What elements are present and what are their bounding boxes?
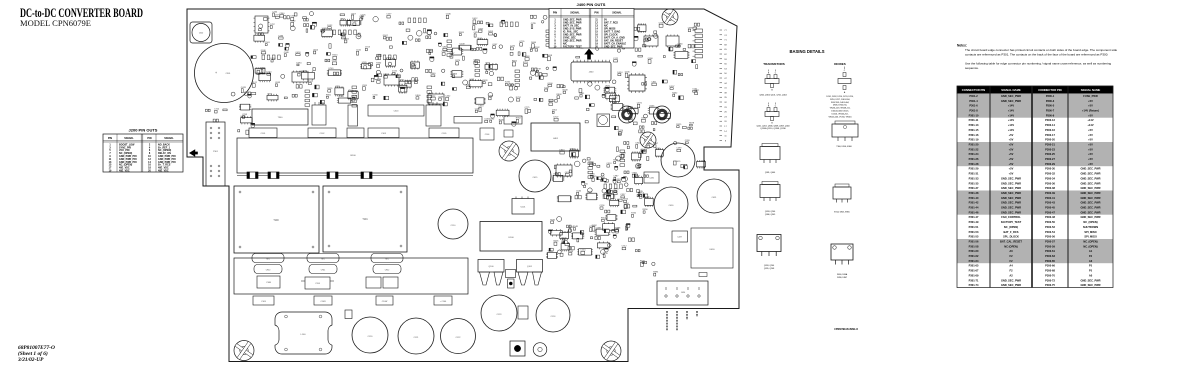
svg-text:GND_SEC_PWR: GND_SEC_PWR [1080,215,1100,219]
transistor Q101 power pack [517,260,543,286]
SMD component cluster right of J400 [613,122,705,169]
svg-text:FACTORY_TEST: FACTORY_TEST [1001,220,1022,224]
svg-text:P300-30: P300-30 [1045,167,1055,171]
svg-text:R732: R732 [631,213,637,215]
svg-text:R910: R910 [623,199,629,201]
regulator VR301 [426,102,441,126]
svg-text:D853: D853 [559,150,565,152]
svg-text:GND_SEC_PWR: GND_SEC_PWR [1001,283,1021,287]
svg-text:SIGNAL NAME: SIGNAL NAME [1001,88,1021,92]
svg-text:+5V: +5V [1088,152,1093,156]
svg-text:C959: C959 [685,140,691,142]
svg-text:D352: D352 [552,110,558,112]
svg-text:+5V: +5V [1009,172,1014,176]
svg-text:D412: D412 [473,18,479,20]
transistor Q100 power pack [478,260,504,286]
svg-text:P300-3: P300-3 [1046,99,1055,103]
svg-text:U583: U583 [485,63,491,65]
svg-text:P301-58: P301-58 [969,244,979,248]
SMD component cluster upper right [566,22,700,58]
svg-text:P301-64: P301-64 [969,259,979,263]
svg-text:P301-67: P301-67 [969,269,979,273]
svg-text:Q357: Q357 [694,90,700,92]
label for diode TO-247 [837,273,848,279]
svg-text:U387: U387 [596,227,602,229]
mounting hole bottom left [234,341,254,361]
svg-text:+5V: +5V [1009,162,1014,166]
resistor network R330 [454,117,482,124]
svg-text:P301-60: P301-60 [969,249,979,253]
svg-text:P301-16: P301-16 [969,133,979,137]
svg-text:C436: C436 [649,178,654,180]
svg-text:SHUTDOWN: SHUTDOWN [1083,225,1098,229]
svg-text:GND_SEC_PWR: GND_SEC_PWR [1080,196,1100,200]
svg-text:GND_SEC_PWR: GND_SEC_PWR [1001,181,1021,185]
svg-text:NC (OPEN): NC (OPEN) [1004,244,1018,248]
svg-text:DC-to-DC CONVERTER BOARD: DC-to-DC CONVERTER BOARD [20,6,143,20]
svg-text:P301-4: P301-4 [969,99,978,103]
svg-text:R440: R440 [562,237,568,239]
svg-text:CPN6079E-BASING-O: CPN6079E-BASING-O [834,328,858,331]
svg-text:C931: C931 [618,132,624,134]
transformer T101 [323,186,407,252]
svg-text:C428: C428 [241,87,247,89]
capacitor C122 bottom circle [441,319,476,354]
svg-text:P301-26: P301-26 [969,157,979,161]
SMD component cluster above J430 [558,224,641,259]
svg-text:Q374: Q374 [341,35,347,37]
svg-text:D201, D202, D210, D211, D214,: D201, D202, D210, D211, D214, [826,96,854,98]
box C340 [504,116,522,124]
svg-text:GND_SEC_PWR: GND_SEC_PWR [1001,201,1021,205]
transistor DPAK package basing 3 [760,144,780,164]
svg-text:C207: C207 [386,14,392,16]
svg-text:C172: C172 [613,58,619,60]
svg-text:GND_SEC_PWR: GND_SEC_PWR [1080,186,1100,190]
svg-text:P301-8: P301-8 [969,109,978,113]
svg-text:D940: D940 [431,73,437,75]
svg-text:P301-44: P301-44 [969,206,979,210]
IC U302 [384,74,399,87]
svg-text:P301-29: P301-29 [969,167,979,171]
svg-text:U594: U594 [267,94,273,96]
footer drawing number 68P81007E77-O (Sheet 1 of 6) 3/21/02-UP [17,345,55,363]
svg-text:GND_SEC_PWR: GND_SEC_PWR [1001,176,1021,180]
svg-text:P300-70: P300-70 [1045,273,1055,277]
svg-text:U430: U430 [710,249,716,251]
svg-text:U462: U462 [469,79,475,81]
svg-text:MODEL CPN6079E: MODEL CPN6079E [20,19,91,28]
SMD component cluster mid-right column [595,165,654,235]
svg-text:U760: U760 [338,96,344,98]
svg-text:D800, D80A: D800, D80A [837,273,848,276]
svg-text:C633: C633 [614,228,620,230]
svg-text:P300-1: P300-1 [1046,94,1055,98]
svg-text:B100: B100 [350,155,356,157]
svg-text:Q203, Q204: Q203, Q204 [764,265,774,267]
board outline [187,9,739,362]
IC U400 quad [627,73,647,93]
svg-text:D941: D941 [579,93,585,95]
svg-text:C712: C712 [214,109,220,111]
capacitor C110 large circle [438,209,468,239]
svg-text:+14V: +14V [1008,118,1014,122]
svg-text:C738: C738 [257,69,263,71]
svg-text:T300: T300 [278,117,284,119]
svg-text:D727: D727 [554,117,560,119]
svg-text:+5V: +5V [1088,138,1093,142]
svg-text:J200 PIN OUTS: J200 PIN OUTS [129,128,158,133]
svg-text:Use the following table for ed: Use the following table for edge connect… [965,62,1111,66]
svg-text:P300-66: P300-66 [1045,264,1055,268]
svg-text:C789: C789 [531,23,537,25]
svg-text:PIN: PIN [594,12,598,15]
svg-text:+ C104: + C104 [440,301,447,303]
svg-text:P300-45: P300-45 [1045,206,1055,210]
svg-text:P300-21: P300-21 [1045,143,1055,147]
module U430 box [691,228,733,268]
svg-text:A0: A0 [1089,273,1093,277]
axial capacitors row on trace [237,172,473,179]
svg-text:U804: U804 [340,19,346,21]
transformer T100 [234,186,319,253]
svg-text:Q453: Q453 [295,52,301,54]
svg-text:+5V: +5V [1009,138,1014,142]
aligned passive runs [262,18,625,189]
svg-text:C787: C787 [270,24,276,26]
hybrid U401 box [531,123,580,151]
svg-text:R595: R595 [554,240,560,242]
svg-text:P301-10: P301-10 [969,113,979,117]
mounting hole mid right [640,132,656,148]
svg-text:+5V: +5V [1088,147,1093,151]
svg-text:Q771: Q771 [589,226,595,228]
svg-text:Q300, Q303, Q401, Q701, Q404: Q300, Q303, Q401, Q701, Q404 [759,95,786,97]
svg-text:Q167: Q167 [492,44,498,46]
svg-text:+14V (Return): +14V (Return) [1082,109,1099,113]
IC U303 [428,93,444,106]
svg-text:GND_SEC_PWR: GND_SEC_PWR [1001,210,1021,214]
capacitor C300 square with circle top-left [190,22,212,43]
IC U300 [254,16,270,33]
svg-text:P301-35: P301-35 [969,181,979,185]
svg-text:NC_(OPEN): NC_(OPEN) [1083,244,1097,248]
svg-text:P301-20: P301-20 [969,143,979,147]
capacitor C121 bottom circle [398,318,434,354]
SMD component cluster mid right [611,103,671,135]
hybrid module U100 [480,222,542,252]
svg-text:R856: R856 [643,209,649,211]
svg-text:R628: R628 [483,80,489,82]
svg-text:R520: R520 [332,55,338,57]
svg-text:C313: C313 [606,163,612,165]
svg-text:Q396: Q396 [688,27,694,29]
svg-text:C156: C156 [600,205,606,207]
svg-text:U709: U709 [328,68,334,70]
svg-text:BAT_F_RCS: BAT_F_RCS [1003,230,1018,234]
diode TO-247 package [831,244,853,265]
svg-text:R678: R678 [689,123,695,125]
svg-text:U596: U596 [655,148,661,150]
transistor TO-247 package basing 5 [757,235,781,257]
svg-text:+5V: +5V [1088,128,1093,132]
svg-text:+14V: +14V [1008,109,1014,113]
capacitor C123 circle [481,295,517,331]
svg-text:PIN: PIN [147,137,151,140]
signal labels below J430 [667,311,697,331]
svg-text:BAT_CAL_RESET: BAT_CAL_RESET [1000,240,1022,244]
svg-text:C546: C546 [576,191,582,193]
svg-text:P300-47: P300-47 [1045,210,1055,214]
narrow box Q330 [348,105,358,126]
svg-text:P300-16: P300-16 [1045,128,1055,132]
svg-text:R491: R491 [466,84,472,86]
svg-text:J400: J400 [589,72,595,74]
arrow pointing up at J400 connector [584,49,594,60]
svg-text:C599: C599 [676,148,682,150]
diode TO-220 package [832,121,858,141]
svg-text:Q106: Q106 [547,83,553,85]
svg-text:U500: U500 [348,90,354,92]
svg-text:A4: A4 [1009,264,1013,268]
small box near mid [345,310,352,319]
svg-text:R629: R629 [327,88,333,90]
svg-text:Q795: Q795 [519,41,525,43]
svg-text:+14V: +14V [1008,104,1014,108]
svg-text:+5V: +5V [1088,104,1093,108]
svg-text:VR201-203, VR208-211,: VR201-203, VR208-211, [830,108,851,110]
SMD component cluster above J430 [640,261,659,276]
svg-text:P300-17: P300-17 [1045,133,1055,137]
svg-text:C283: C283 [278,35,284,37]
svg-text:SIGNAL NAME: SIGNAL NAME [1081,88,1101,92]
transistor Q110 with dot [510,341,525,356]
svg-text:D844: D844 [531,42,537,44]
svg-text:NC_(OPEN): NC_(OPEN) [1083,220,1097,224]
svg-text:R394: R394 [344,38,350,40]
svg-text:R798: R798 [603,253,609,255]
svg-text:C734: C734 [272,11,278,13]
inductor L100 dog-bone [275,312,332,354]
label for basing 4 [765,211,775,216]
svg-text:Q632: Q632 [565,172,571,174]
svg-text:Q844: Q844 [442,47,448,49]
svg-text:P300-7: P300-7 [1046,109,1055,113]
svg-text:NC_(OPEN): NC_(OPEN) [1004,225,1018,229]
svg-text:+5V: +5V [1088,157,1093,161]
svg-text:P301-13: P301-13 [969,123,979,127]
svg-text:+5V: +5V [1009,147,1014,151]
svg-text:R274: R274 [455,60,461,62]
module U101 box [512,197,534,215]
svg-text:P301-6: P301-6 [969,104,978,108]
svg-text:U382: U382 [548,251,554,253]
svg-text:U401: U401 [553,138,559,140]
capacitor C12y small circle [533,343,547,357]
label for basing 2 [756,126,789,131]
svg-text:P300-52: P300-52 [1045,225,1055,229]
capacitor C431 circle [697,179,731,213]
svg-text:P300-72: P300-72 [1045,278,1055,282]
svg-text:GND_SEC_PWR: GND_SEC_PWR [1001,99,1021,103]
svg-text:R803: R803 [459,32,465,34]
heatsink band with rectifiers [234,254,468,295]
svg-text:GND_SEC_PWR: GND_SEC_PWR [1080,191,1100,195]
svg-text:(Sheet 1 of 6): (Sheet 1 of 6) [18,350,48,357]
svg-text:P300-39: P300-39 [1045,191,1055,195]
mounting hole top right [662,9,678,25]
svg-text:3/21/02-UP: 3/21/02-UP [17,357,44,363]
svg-text:C314: C314 [315,283,320,285]
svg-text:GND_SEC_PWR: GND_SEC_PWR [1001,191,1021,195]
svg-text:L100: L100 [301,334,307,336]
arrow pointing left at J200 table [189,149,198,156]
transistor SOT-23 package basing 2 [765,103,779,125]
svg-text:Q138: Q138 [438,96,444,98]
small part E431 [699,273,707,277]
svg-text:Q320: Q320 [478,28,484,30]
svg-text:C148: C148 [525,56,531,58]
svg-text:SIGNAL: SIGNAL [612,12,622,15]
svg-text:+: + [215,71,217,75]
svg-text:P301-55: P301-55 [969,235,979,239]
box L300 [597,114,610,127]
svg-text:C800: C800 [635,143,641,145]
svg-text:R445: R445 [499,119,505,121]
svg-text:P301-11: P301-11 [969,118,979,122]
svg-text:GND_SEC_PWR: GND_SEC_PWR [1080,206,1100,210]
svg-text:P301-62: P301-62 [969,254,979,258]
regulator VR300 [312,102,326,125]
svg-text:C10R: C10R [320,301,326,303]
svg-text:C607: C607 [351,13,357,15]
capacitor C415 large circle [519,160,551,192]
diode DPAK package 2 [833,184,851,203]
svg-text:D536: D536 [261,50,267,52]
svg-text:+5V: +5V [1088,143,1093,147]
svg-text:D245: D245 [363,64,369,66]
svg-text:GND_SEC_PWR: GND_SEC_PWR [1080,181,1100,185]
svg-text:GND_SEC_PWR: GND_SEC_PWR [1080,278,1100,282]
svg-text:P300-23: P300-23 [1045,147,1055,151]
svg-text:C971: C971 [275,15,281,17]
svg-text:SIGNAL: SIGNAL [124,137,134,140]
svg-text:D524: D524 [617,72,623,74]
svg-text:D806, D900-911,: D806, D900-911, [833,105,848,107]
svg-text:C739: C739 [536,69,542,71]
connector P301/P300 card edge area [206,122,225,186]
svg-text:GND_SEC_PWR: GND_SEC_PWR [1080,167,1100,171]
row of capacitors C101-C105 above plate [249,128,459,138]
capacitor C124 circle [536,298,570,332]
svg-text:P300-9: P300-9 [1046,113,1055,117]
svg-text:P300-14: P300-14 [1045,123,1055,127]
svg-text:D172: D172 [392,71,398,73]
svg-text:GND_SEC_PWR: GND_SEC_PWR [1080,210,1100,214]
svg-text:T100: T100 [273,220,279,222]
svg-text:Q504: Q504 [313,49,319,51]
svg-text:P300-41: P300-41 [1045,196,1055,200]
svg-text:Notes:: Notes: [957,44,967,48]
capacitor C106 and small parts right of plate [480,128,513,140]
svg-text:CR12: CR12 [385,270,390,272]
mounting hole center [499,141,519,161]
svg-text:P300-75: P300-75 [1045,283,1055,287]
svg-text:48E_VDC: 48E_VDC [158,170,169,173]
svg-text:P301-31: P301-31 [969,172,979,176]
svg-text:C661: C661 [626,224,632,226]
svg-text:Q290: Q290 [637,164,643,166]
svg-text:C775: C775 [525,107,531,109]
svg-text:Q205, Q208: Q205, Q208 [764,268,774,270]
svg-text:P300-59: P300-59 [1045,244,1055,248]
capacitor C301 large electrolytic [195,44,254,103]
svg-text:D800: D800 [416,95,422,97]
svg-text:CR11: CR11 [321,270,325,272]
svg-text:RE1: RE1 [321,259,325,261]
svg-text:R792: R792 [516,97,522,99]
svg-text:+14V: +14V [1087,118,1093,122]
svg-text:J400 PIN OUTS: J400 PIN OUTS [577,2,606,7]
svg-text:R330: R330 [376,63,382,65]
svg-text:C535: C535 [484,119,490,121]
inductor L403 toroid [654,106,671,123]
svg-text:+14V: +14V [1008,123,1014,127]
svg-text:+5V: +5V [1009,143,1014,147]
svg-text:U408: U408 [460,43,466,45]
svg-text:R948: R948 [573,226,579,228]
svg-text:E314, D801, E805: E314, D801, E805 [834,212,849,214]
svg-text:D745: D745 [625,71,631,73]
svg-text:P301-46: P301-46 [969,210,979,214]
svg-text:P300-36: P300-36 [1045,181,1055,185]
mounting hole bottom right [601,341,621,361]
svg-text:P300-68: P300-68 [1045,269,1055,273]
svg-text:R462: R462 [672,92,678,94]
svg-text:D567: D567 [383,35,389,37]
svg-text:C293: C293 [242,114,248,116]
svg-text:D532: D532 [327,25,333,27]
svg-text:+5V: +5V [1088,162,1093,166]
svg-text:C437: C437 [677,237,682,239]
svg-text:P300-61: P300-61 [1045,249,1055,253]
svg-text:GND_SEC_PWR: GND_SEC_PWR [1001,94,1021,98]
capacitor C430 circle [654,187,688,221]
svg-text:PIN: PIN [108,137,112,140]
svg-text:P300-20: P300-20 [1045,138,1055,142]
svg-text:FACTORY_TEST: FACTORY_TEST [563,46,582,49]
svg-text:C323: C323 [478,106,484,108]
svg-text:U100: U100 [508,237,514,239]
svg-text:Q306, Q309: Q306, Q309 [765,214,775,216]
svg-text:GND_SEC_PWR: GND_SEC_PWR [1001,196,1021,200]
svg-text:R962: R962 [516,118,522,120]
svg-text:SPL_DLOCK: SPL_DLOCK [1003,235,1019,239]
svg-text:PIN: PIN [553,12,557,15]
svg-text:R508: R508 [563,89,569,91]
svg-text:BASING DETAILS: BASING DETAILS [789,49,824,54]
svg-text:GND_SEC_PWR: GND_SEC_PWR [1001,206,1021,210]
svg-text:R947: R947 [653,143,659,145]
svg-text:R664: R664 [601,218,607,220]
svg-text:VR204-206, VT200, VR301: VR204-206, VT200, VR301 [828,116,851,118]
svg-text:P300-25: P300-25 [1045,152,1055,156]
SMD component cluster top mid [557,82,620,103]
svg-text:GND_SEC_PWR: GND_SEC_PWR [1080,172,1100,176]
svg-text:D191: D191 [617,179,623,181]
svg-text:T101: T101 [362,219,368,221]
svg-text:Q203, Q206: Q203, Q206 [765,211,775,213]
